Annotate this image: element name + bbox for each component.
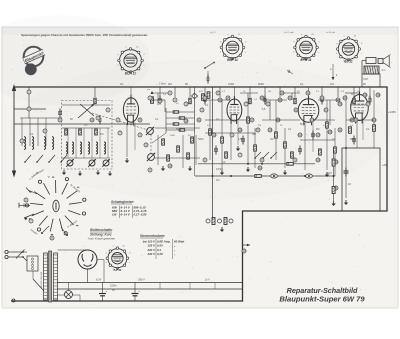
svg-text:Stromentnahme:: Stromentnahme: [140, 234, 165, 238]
svg-text:+250: +250 [382, 163, 388, 167]
antenna coils [24, 137, 26, 150]
tube socket diagram EBF 11 [220, 35, 245, 60]
mains input [8, 251, 23, 253]
output stage box [362, 74, 380, 87]
variable cap circle 2 [148, 154, 155, 161]
tube EFM11 (schematic) [298, 96, 319, 126]
filter capacitors [99, 293, 106, 295]
top rail component drops [94, 87, 96, 97]
chassis frame outline [11, 87, 387, 301]
mains transformer [49, 251, 52, 302]
svg-text:0 m: 0 m [382, 69, 386, 72]
coil pack dashed outline [62, 101, 113, 170]
tube socket diagram ECH 11 [118, 48, 144, 74]
junction dots [273, 175, 275, 177]
svg-text:0,17–0,55: 0,17–0,55 [134, 213, 147, 217]
phono input sockets [206, 219, 210, 223]
svg-text:Schwingkreise:: Schwingkreise: [111, 200, 134, 204]
misc marks below EFM socket [287, 70, 293, 74]
diamond coupling symbol [192, 93, 198, 99]
svg-text:LW: LW [112, 213, 117, 217]
svg-text:240 V: 240 V [146, 252, 156, 256]
Blaupunkt logo [22, 47, 45, 76]
paper speckle [9, 33, 395, 304]
wire antenna tap [14, 108, 46, 110]
antenna trimmer symbols [205, 63, 213, 68]
scan wash [0, 15, 150, 105]
tube connection wires [126, 123, 128, 158]
tube EL11 (schematic) [351, 92, 369, 124]
field coil box [342, 148, 380, 211]
variable cap circle 1 [147, 128, 154, 135]
svg-text:Vom Knopf gesehen: Vom Knopf gesehen [88, 237, 115, 241]
svg-text:2x V: 2x V [205, 279, 210, 282]
tube socket diagram AZ 11 [106, 247, 129, 270]
output transformer Tr2 [366, 58, 376, 64]
svg-text:60 Watt: 60 Watt [174, 240, 185, 244]
oscillator coils in pack [66, 142, 68, 154]
svg-text:6,3V: 6,3V [96, 278, 102, 282]
svg-text:7x0?: 7x0? [363, 78, 369, 81]
EFM11 stage components [275, 100, 277, 160]
tuning gang dashed link [92, 113, 148, 130]
mains on/off switch [16, 250, 25, 259]
antenna lead-in [13, 87, 15, 175]
loudspeaker [378, 59, 383, 64]
IF transformer cluster 1 [165, 108, 167, 133]
ground arrows under coil pack [63, 170, 65, 173]
tube EBF11 (schematic) [227, 96, 242, 124]
B+ bus wire [195, 175, 335, 177]
svg-text:Blaupunkt-Super 6W 79: Blaupunkt-Super 6W 79 [279, 295, 365, 304]
rosette lower contacts [43, 226, 49, 232]
extra test point circles [148, 96, 152, 100]
heater bus wires [57, 282, 243, 284]
screen bus wire [198, 163, 315, 165]
tube socket diagram EL 11 [336, 37, 360, 61]
mains switch lever [33, 279, 44, 291]
svg-text:+245V: +245V [388, 110, 396, 114]
dial lamp [65, 291, 73, 299]
tube ECH11 (schematic) [123, 95, 138, 125]
AVC bus wire [14, 123, 150, 125]
tuning gang capacitor [78, 104, 94, 118]
input band filter cluster [20, 117, 60, 119]
tube socket diagram EFM 11 [294, 35, 319, 60]
wave change switch rosette [25, 177, 86, 235]
voltage selector [27, 256, 38, 271]
EL11 stage components [345, 95, 347, 148]
B+ rail components [271, 174, 278, 178]
svg-text:290 V: 290 V [138, 278, 145, 282]
svg-text:6–14 V: 6–14 V [121, 213, 131, 217]
chassis terminal [12, 299, 15, 302]
resistors on +B feed at x333.6 [333, 148, 335, 201]
svg-text:0,28: 0,28 [157, 252, 163, 256]
heater drops [159, 283, 161, 290]
band switch contacts [25, 155, 31, 162]
IF cluster lower components [157, 135, 159, 165]
interconnect wires [150, 99, 165, 101]
resistors beside IF ladder [202, 94, 205, 101]
trimmer capacitors [67, 160, 73, 166]
dial pointer arrow [243, 244, 251, 246]
svg-text:EFM 11: EFM 11 [301, 58, 312, 62]
svg-text:Wellenschalter: Wellenschalter [90, 228, 113, 232]
svg-text:AZ 11: AZ 11 [112, 268, 121, 272]
long vertical wire (phono feed) [212, 87, 214, 217]
padder caps [58, 111, 62, 113]
svg-text:EL 11: EL 11 [344, 60, 352, 64]
svg-text:+: + [138, 289, 140, 293]
svg-text:110 125 220 240: 110 125 220 240 [41, 271, 43, 288]
svg-text:am: am [147, 89, 150, 91]
rectifier AZ11 (schematic) [78, 250, 97, 269]
svg-text:+: + [106, 289, 108, 293]
svg-text:1M: 1M [268, 91, 271, 93]
switch contacts near EBF [255, 152, 261, 158]
svg-text:220V~: 220V~ [110, 284, 118, 288]
EBF11 stage components [209, 100, 211, 160]
svg-text:5000: 5000 [170, 135, 176, 137]
svg-text:2M: 2M [258, 125, 261, 127]
rosette left contact spokes [19, 204, 30, 206]
